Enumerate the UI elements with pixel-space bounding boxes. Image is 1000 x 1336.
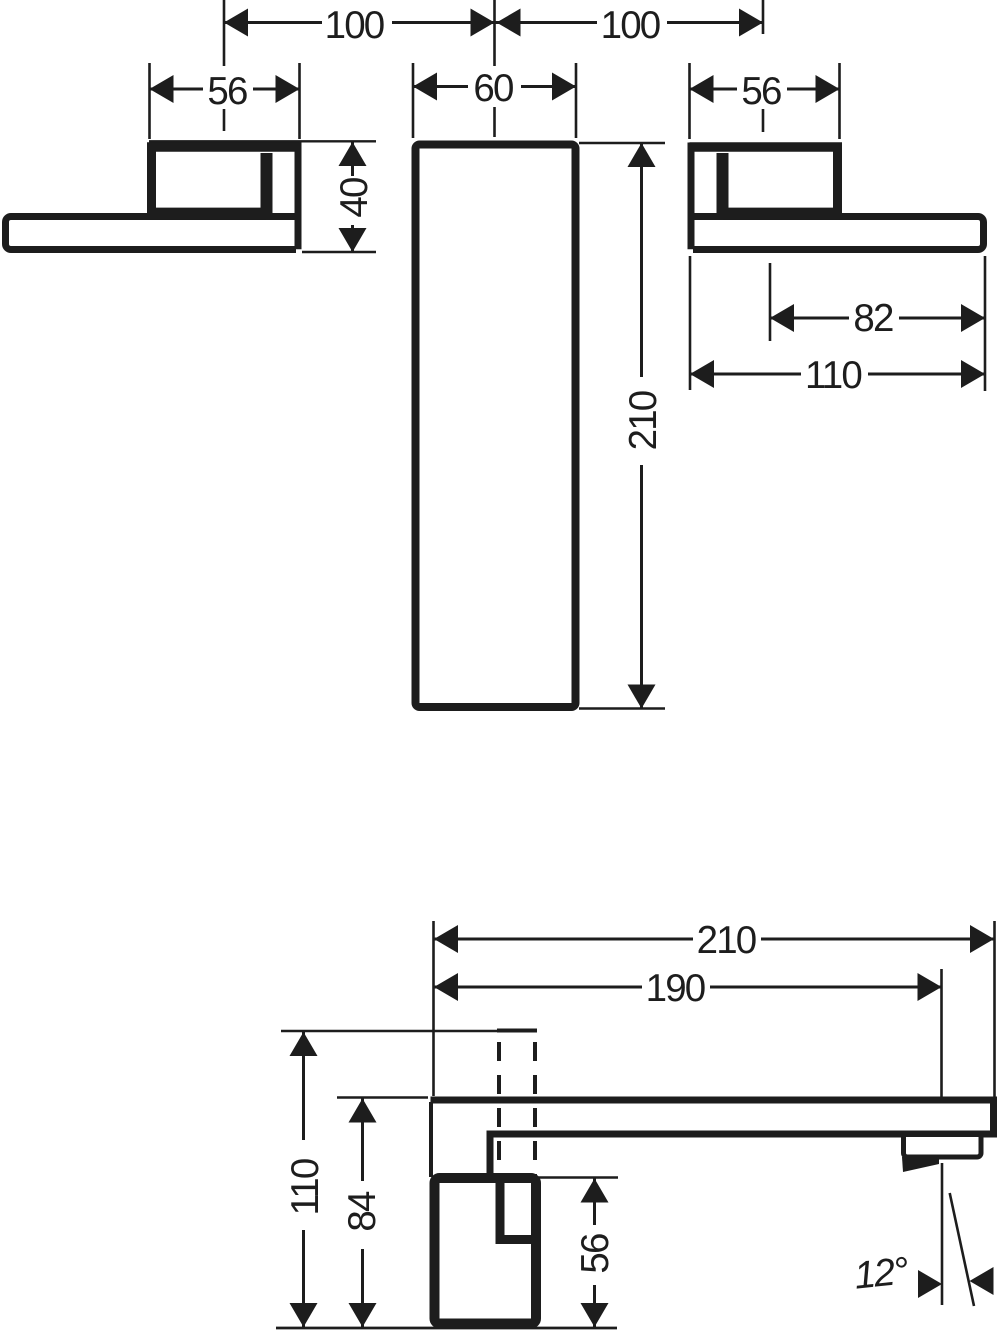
- arrow angle left: [970, 1267, 994, 1295]
- arrow 40 up: [339, 142, 367, 166]
- wall plate left edge: [429, 1102, 433, 1177]
- svg-text:56: 56: [207, 70, 247, 113]
- hidden handle dashed right: [533, 1042, 537, 1177]
- arrow 210B right: [970, 925, 994, 953]
- right handle inner hook: [717, 153, 729, 214]
- extension lines 60: [413, 63, 576, 138]
- extension line 84 top: [337, 1096, 428, 1099]
- extension line 110 top: [281, 1030, 497, 1033]
- handle side view body: [435, 1178, 537, 1324]
- extension line 82 left: [769, 263, 772, 341]
- svg-text:210: 210: [697, 919, 756, 962]
- left handle inner hook: [261, 153, 273, 214]
- extension line left handle centerline: [223, 0, 226, 131]
- arrow 56B up: [581, 1179, 609, 1203]
- svg-text:110: 110: [805, 354, 861, 397]
- left handle hook right bar: [295, 143, 302, 250]
- extension line right handle centerline: [762, 0, 765, 132]
- dimension line 40: [351, 142, 354, 252]
- right handle hook left bar: [833, 143, 842, 215]
- right handle hook right bar: [688, 143, 695, 250]
- arrow 100R right: [739, 9, 763, 37]
- arrow 56B down: [581, 1303, 609, 1327]
- left handle lever: [6, 217, 297, 250]
- spout arm side fill: [431, 1097, 994, 1136]
- arrow 56R right: [816, 75, 840, 103]
- arrow 100R left: [497, 9, 521, 37]
- extension lines 210 top view: [579, 143, 665, 709]
- arrow 82 right: [961, 304, 985, 332]
- aerator wedge: [902, 1157, 939, 1172]
- extension line spout centerline top: [493, 0, 496, 137]
- extension line 190 right upper: [940, 969, 943, 1098]
- left handle hook left bar: [147, 143, 156, 215]
- handle side divider: [500, 1182, 532, 1240]
- extension line 210 left / wall: [432, 921, 435, 1096]
- arrow 190 left: [434, 973, 458, 1001]
- extension lines 40: [149, 141, 376, 252]
- svg-text:40: 40: [333, 178, 376, 218]
- svg-text:56: 56: [574, 1234, 617, 1274]
- dimension line 110 bottom: [302, 1032, 305, 1327]
- extension lines 56 left: [150, 63, 300, 139]
- arrow 40 down: [339, 228, 367, 252]
- right handle window bottom bar: [723, 208, 843, 220]
- svg-text:84: 84: [341, 1191, 384, 1232]
- arrow 110B up: [290, 1032, 318, 1056]
- arrow 110B down: [290, 1303, 318, 1327]
- spout arm side outline: [431, 1100, 994, 1174]
- arrow 210B left: [434, 925, 458, 953]
- dimension line 100 right: [495, 21, 764, 24]
- dimension line 56 bottom: [593, 1179, 596, 1328]
- arrow 60 right: [552, 73, 576, 101]
- arrow 110 right: [961, 360, 985, 388]
- arrow 84 up: [349, 1099, 377, 1123]
- arrow 210 up: [628, 143, 656, 167]
- arrow 56L left: [150, 75, 174, 103]
- extension line 110/82 right: [984, 256, 987, 391]
- svg-text:110: 110: [284, 1159, 327, 1215]
- left handle window bottom bar: [147, 208, 267, 220]
- extension line 110 left: [689, 256, 692, 390]
- left handle hook top bar: [147, 142, 300, 152]
- svg-text:82: 82: [853, 297, 893, 340]
- arrow 56L right: [276, 75, 300, 103]
- extension line 56 top: [537, 1176, 618, 1179]
- svg-text:12°: 12°: [852, 1249, 910, 1297]
- dimension line 210 top view: [640, 143, 643, 709]
- dimension line 110 handle: [690, 373, 985, 376]
- hidden handle dashed top: [497, 1029, 537, 1033]
- arrow angle right: [918, 1270, 942, 1298]
- arrow 82 left: [770, 304, 794, 332]
- dimension line 100 left: [224, 21, 495, 24]
- right handle group (mirror): [690, 143, 984, 250]
- right handle hook top bar: [690, 142, 843, 152]
- arrow 100L right: [471, 9, 495, 37]
- angle slanted line: [950, 1193, 974, 1306]
- baseline: [276, 1327, 617, 1330]
- dimension line 56 right: [690, 88, 840, 91]
- outlet block: [904, 1137, 982, 1157]
- arrow 210 down: [628, 685, 656, 709]
- dimension line 210 bottom: [434, 938, 994, 941]
- angle reference vertical: [941, 1163, 944, 1305]
- svg-text:190: 190: [646, 967, 705, 1010]
- dimension line 84: [361, 1099, 364, 1328]
- hidden handle dashed left: [497, 1042, 501, 1177]
- extension line 210 right: [993, 921, 996, 1097]
- svg-text:100: 100: [325, 4, 384, 47]
- right handle lever: [693, 217, 984, 250]
- svg-text:56: 56: [741, 70, 781, 113]
- arrow 110 left: [690, 360, 714, 388]
- arrow 84 down: [349, 1303, 377, 1327]
- dimension line 190: [434, 986, 942, 989]
- svg-text:210: 210: [622, 391, 665, 450]
- svg-text:100: 100: [601, 4, 660, 47]
- arrow 100L left: [224, 9, 248, 37]
- dimension line 60: [413, 85, 576, 88]
- arrow 190 right: [918, 973, 942, 1001]
- dimension line 82: [770, 317, 985, 320]
- spout front view: [416, 145, 576, 708]
- arrow 56R left: [690, 75, 714, 103]
- dimension line 56 left: [150, 88, 300, 91]
- svg-text:60: 60: [473, 67, 513, 110]
- arrow 60 left: [413, 73, 437, 101]
- extension lines 56 right: [690, 63, 840, 139]
